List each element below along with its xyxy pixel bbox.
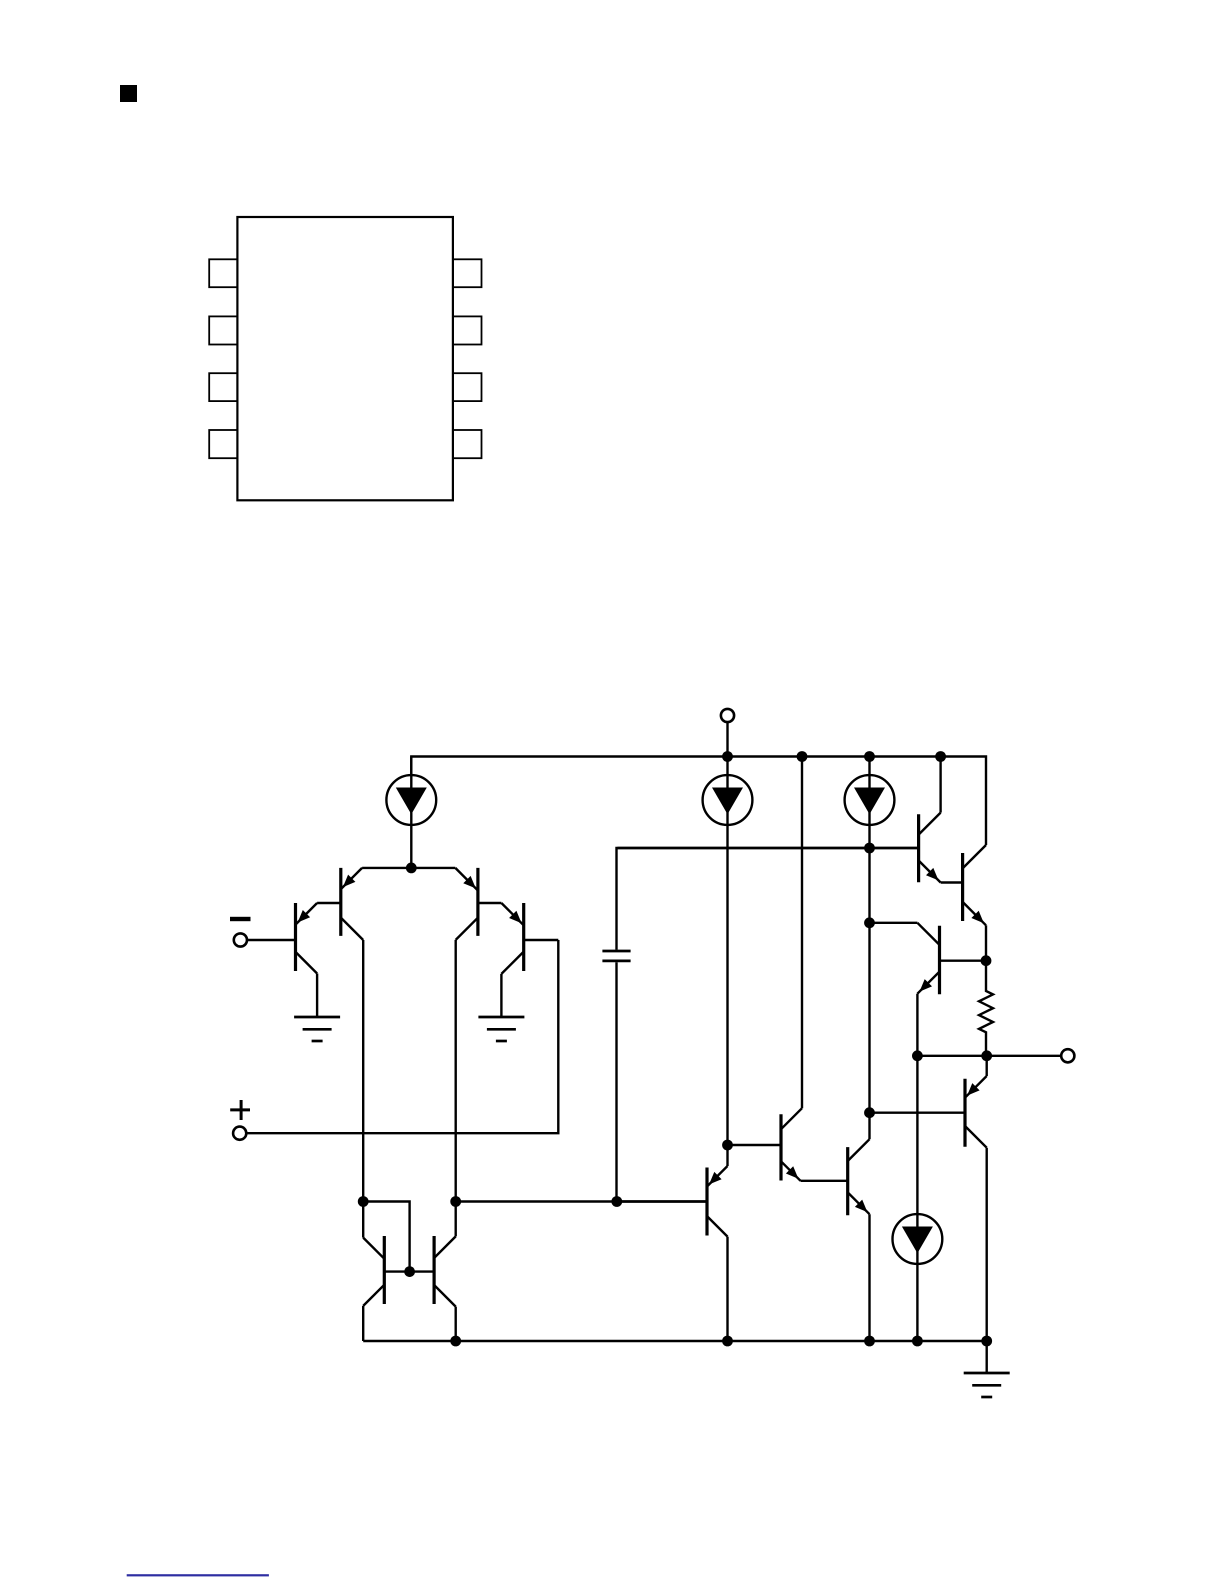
wire Q5 collector link (870, 922, 918, 924)
node A junction (406, 863, 417, 874)
wire Q8 collector up (868, 1113, 870, 1140)
wire I3 column (868, 757, 870, 1113)
wire mirror diode link (363, 1202, 409, 1272)
wire cap top lead and Q3 base line (617, 848, 919, 950)
current source I1 (386, 775, 436, 825)
transistor Q8 (NPN gain stage 2) (801, 1139, 870, 1215)
wire Q8 emitter drop (868, 1214, 870, 1341)
wire output node to ground rail via I4 (916, 1056, 918, 1341)
terminal inverting input (234, 933, 247, 946)
transistor Q5 (NPN) (917, 923, 986, 995)
wire Q3i collector drop (455, 940, 457, 1202)
wire Q10 emitter to rail (362, 1306, 364, 1341)
wire Q5 emitter drop (916, 994, 918, 1056)
transistor Q6 (PNP level shift) (617, 1166, 727, 1237)
wire Q3 collector up (939, 757, 941, 813)
transistor Q10 (mirror diode side) (363, 1236, 409, 1306)
terminal non-inverting input (233, 1127, 246, 1140)
current source I3 (845, 775, 895, 825)
wire Q1 collector to ground (316, 974, 318, 1018)
current source I4 (893, 1214, 943, 1264)
wire mirror output bus (456, 1200, 707, 1202)
junction I2 / Q6 emitter / Q7 base (722, 1140, 733, 1151)
junction V+ rail (722, 751, 733, 762)
wire Q6 emitter up (726, 1145, 728, 1166)
wire I1 column (410, 757, 412, 868)
junction I3/Q5 collector (864, 917, 875, 928)
junction rail Q11 (450, 1336, 461, 1347)
terminal output (1061, 1049, 1074, 1062)
wire Q9 emitter from N2 (986, 1056, 988, 1076)
junction rail Q8 (864, 1336, 875, 1347)
terminal V+ (pin) (721, 709, 734, 722)
wire cap bottom lead (615, 962, 617, 1201)
junction mirror bus left (450, 1196, 461, 1207)
junction mirror bases (404, 1266, 415, 1277)
junction N1 (981, 955, 992, 966)
ground (Q4i collector) (478, 1017, 524, 1041)
wire top supply rail (411, 757, 986, 846)
junction Q9 base / I3 column (864, 1107, 875, 1118)
wire Q7 collector up to rail (801, 757, 803, 1109)
wire non-inverting input feed (246, 940, 558, 1133)
wire Q10 collector up (362, 1202, 364, 1238)
wire Q4 emitter to node N1 (985, 925, 987, 960)
wire Q11 collector up (455, 1202, 457, 1237)
ground (main) (964, 1373, 1010, 1397)
current source I2 (703, 775, 753, 825)
transistor Q3 (NPN driver) (617, 813, 940, 883)
wire bottom rail (363, 1340, 987, 1342)
transistor Q9 (output PNP) (870, 1076, 987, 1148)
footer rule (127, 1574, 269, 1576)
IC package outline (8-pin DIP) (209, 217, 481, 500)
transistor Q11 (mirror output side) (410, 1236, 456, 1307)
wire output line (917, 1055, 1061, 1057)
wire Q4i collector to ground (500, 974, 502, 1017)
junction Q2 collector node (358, 1196, 369, 1207)
junction Q3 rail (935, 751, 946, 762)
junction I3/cap line (864, 843, 875, 854)
wire Q9 collector drop (986, 1148, 988, 1341)
wire ground drop (986, 1341, 988, 1373)
junction rail Q6 (722, 1336, 733, 1347)
junction rail ground (981, 1336, 992, 1347)
transistor Q4 (NPN output darlington) (941, 845, 986, 925)
label minus sign (230, 917, 251, 921)
transistor Q3i (PNP, right of diff pair) (455, 868, 501, 940)
junction cap bottom (611, 1196, 622, 1207)
transistor Q4i (non-inverting input PNP) (501, 903, 558, 974)
transistor Q2 (PNP, left of diff pair) (317, 868, 363, 940)
label plus sign (230, 1100, 250, 1120)
junction N2 output node (981, 1050, 992, 1061)
capacitor C1 (602, 951, 630, 961)
transistor Q1 (inverting input PNP) (247, 903, 317, 974)
wire I2 column (726, 757, 728, 1146)
ground (Q1 collector) (294, 1017, 340, 1041)
junction I3 rail (864, 751, 875, 762)
wire Q6 collector drop (726, 1237, 728, 1341)
wire node A bar (362, 867, 455, 869)
wire Q2 collector drop (362, 940, 364, 1202)
resistor R1 (979, 961, 993, 1056)
transistor Q7 (NPN gain stage) (728, 1108, 803, 1181)
wire V+ lead (726, 722, 728, 756)
junction Q7 rail (797, 751, 808, 762)
junction Q5 emitter/output (912, 1050, 923, 1061)
section marker square (120, 85, 137, 102)
wire Q11 emitter to rail (455, 1307, 457, 1341)
junction rail I4 (912, 1336, 923, 1347)
